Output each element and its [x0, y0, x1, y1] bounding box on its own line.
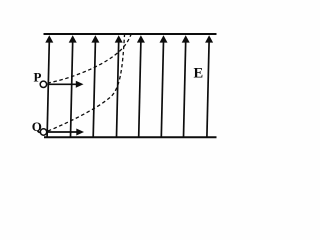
bottom plate line [44, 136, 217, 138]
P velocity arrow [47, 81, 83, 88]
Q velocity arrow [48, 129, 85, 136]
field line 1 [45, 35, 53, 137]
top plate line [44, 33, 217, 35]
svg-text:E: E [194, 66, 204, 82]
field line 3 [91, 35, 99, 137]
field line 5 [137, 35, 145, 137]
field line 7 [182, 35, 190, 137]
particle Q circle [40, 129, 46, 135]
field line 8 [205, 35, 213, 137]
field line 6 [160, 35, 168, 137]
field line 4 [115, 35, 123, 137]
Q trajectory (dashed) [48, 35, 125, 131]
P trajectory (dashed) [48, 35, 132, 84]
particle P circle [40, 81, 46, 87]
field line 2 [69, 35, 77, 137]
